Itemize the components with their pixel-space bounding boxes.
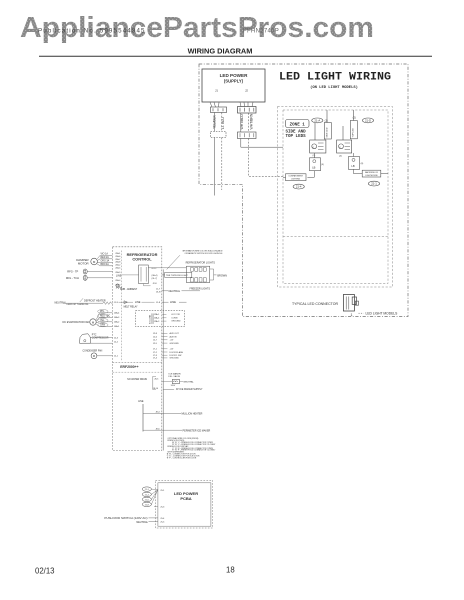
svg-text:M: M: [93, 260, 96, 264]
svg-text:IM CONN: IM CONN: [150, 314, 152, 324]
svg-text:J4A-4: J4A-4: [114, 312, 120, 315]
svg-text:BRN 4A: BRN 4A: [101, 263, 110, 266]
svg-text:ORG 3A: ORG 3A: [101, 260, 110, 263]
svg-text:CONN: CONN: [171, 317, 178, 319]
svg-text:21-1: 21-1: [145, 489, 150, 491]
svg-text:+5V: +5V: [170, 340, 174, 342]
svg-text:LINE: LINE: [116, 274, 122, 277]
svg-text:J2-6: J2-6: [153, 336, 158, 338]
svg-text:4#2 YOR: 4#2 YOR: [171, 314, 180, 316]
svg-text:WHT/BRN: WHT/BRN: [250, 113, 254, 129]
svg-text:+5V: +5V: [170, 349, 174, 351]
svg-text:J3-N: J3-N: [156, 291, 161, 293]
svg-text:(3H-4): (3H-4): [152, 275, 158, 277]
svg-text:J5-3: J5-3: [160, 506, 165, 508]
svg-text:J4A-3: J4A-3: [114, 316, 120, 319]
svg-text:GRN: GRN: [100, 325, 105, 327]
svg-text:PUSH ROD SWITCH (120V AC): PUSH ROD SWITCH (120V AC): [104, 516, 147, 520]
svg-text:ERF2000++: ERF2000++: [120, 365, 138, 369]
svg-text:FFHN2740P: FFHN2740P: [243, 28, 279, 34]
svg-text:YEL: YEL: [100, 320, 105, 322]
svg-text:J2-7: J2-7: [153, 340, 158, 342]
svg-text:GROUND: GROUND: [171, 321, 181, 323]
svg-text:VIO 1A: VIO 1A: [101, 253, 109, 256]
svg-text:J7-1: J7-1: [153, 349, 158, 351]
svg-text:MULLION HEATER: MULLION HEATER: [182, 413, 203, 416]
svg-text:J8-5: J8-5: [154, 378, 159, 380]
svg-text:TOP LED: TOP LED: [353, 128, 355, 138]
svg-text:BROWN: BROWN: [217, 274, 227, 277]
svg-text:GROUND: GROUND: [170, 358, 180, 360]
svg-text:NEUTRAL: NEUTRAL: [169, 290, 181, 293]
svg-text:RFG - TP: RFG - TP: [67, 269, 78, 273]
svg-text:Publication No. 5995544845: Publication No. 5995544845: [38, 27, 146, 34]
svg-text:J1: J1: [215, 89, 218, 93]
svg-text:J2-2: J2-2: [114, 341, 119, 343]
svg-text:RED +DC: RED +DC: [100, 316, 110, 318]
svg-text:(SUPPLY): (SUPPLY): [224, 79, 244, 84]
svg-text:M: M: [92, 320, 95, 324]
svg-text:(4): (4): [339, 156, 342, 158]
svg-text:AT ICE MAKER SUPPLY: AT ICE MAKER SUPPLY: [176, 388, 203, 391]
svg-text:BACKSIDE OF: BACKSIDE OF: [365, 171, 379, 174]
svg-text:J5-1: J5-1: [160, 490, 165, 492]
svg-text:LINE: LINE: [170, 300, 176, 304]
svg-text:'E' 'F' - CONTROLLER FOR DOOR: 'E' 'F' - CONTROLLER FOR DOOR: [167, 458, 197, 460]
svg-text:LINE: LINE: [135, 301, 141, 304]
svg-text:(2): (2): [353, 116, 356, 120]
svg-text:ICE MAKER: ICE MAKER: [169, 372, 181, 375]
svg-text:LIGHTHOUSE: LIGHTHOUSE: [365, 175, 378, 177]
svg-text:J2A-1: J2A-1: [154, 313, 160, 316]
svg-text:J2A-4: J2A-4: [154, 317, 160, 320]
svg-text:PPL: PPL: [100, 311, 105, 313]
svg-text:J1-3: J1-3: [114, 302, 119, 304]
svg-text:DEFROST HEATER: DEFROST HEATER: [84, 300, 106, 303]
svg-text:J7-3: J7-3: [153, 355, 158, 357]
svg-text:120V: 120V: [171, 385, 176, 387]
svg-text:DOOR 1 SW: DOOR 1 SW: [170, 355, 182, 357]
svg-text:J2: J2: [245, 89, 248, 93]
svg-text:LIGHTING: LIGHTING: [291, 178, 300, 180]
svg-text:LED POWER: LED POWER: [220, 73, 249, 78]
svg-text:TYPICAL LED CONNECTOR: TYPICAL LED CONNECTOR: [292, 302, 338, 306]
svg-text:J7-2: J7-2: [153, 352, 158, 354]
svg-text:21-6: 21-6: [145, 499, 150, 501]
svg-text:SIDE LED: SIDE LED: [327, 127, 329, 137]
svg-text:LB: LB: [351, 164, 354, 168]
svg-text:J1A-5: J1A-5: [115, 267, 121, 270]
svg-text:J5-5: J5-5: [160, 522, 165, 524]
svg-text:(5): (5): [321, 164, 324, 166]
svg-text:02/13: 02/13: [35, 567, 55, 576]
svg-text:RFG - TCH: RFG - TCH: [66, 276, 79, 280]
svg-text:DOOR FLASH: DOOR FLASH: [170, 351, 184, 354]
svg-text:CONDENSER FAN: CONDENSER FAN: [83, 349, 103, 352]
svg-text:(6): (6): [361, 163, 364, 165]
svg-text:J7-4: J7-4: [153, 358, 158, 360]
svg-text:RED 2A: RED 2A: [101, 256, 110, 259]
svg-text:MELT RELAY: MELT RELAY: [124, 306, 138, 309]
svg-text:GROUND: GROUND: [170, 343, 180, 345]
svg-text:J1A-1: J1A-1: [115, 252, 121, 255]
svg-text:LB: LB: [312, 165, 315, 169]
svg-text:SIDE AND: SIDE AND: [286, 131, 307, 135]
svg-text:J2-3: J2-3: [114, 338, 119, 340]
svg-text:J1A-6: J1A-6: [115, 255, 121, 258]
svg-text:TER TWIN SW LIGHT: TER TWIN SW LIGHT: [166, 275, 188, 277]
svg-text:DEFROST THERM YEL: DEFROST THERM YEL: [67, 304, 90, 306]
svg-text:LED LIGHT MODELS: LED LIGHT MODELS: [366, 312, 399, 316]
svg-text:J2-8: J2-8: [153, 283, 158, 285]
svg-text:PTC: PTC: [92, 335, 97, 337]
svg-text:21-A: 21-A: [314, 118, 320, 122]
svg-text:21-4: 21-4: [296, 185, 302, 189]
svg-text:FREEZER LIGHTS: FREEZER LIGHTS: [190, 287, 211, 290]
svg-text:J1-7: J1-7: [156, 289, 161, 291]
svg-text:NEUTRAL: NEUTRAL: [136, 521, 148, 524]
svg-text:TOP LEDS: TOP LEDS: [286, 135, 307, 139]
svg-text:(3L-7): (3L-7): [152, 278, 158, 280]
svg-text:NO WATER DRAIN: NO WATER DRAIN: [127, 378, 147, 381]
svg-text:J4A-1: J4A-1: [114, 325, 120, 328]
svg-text:J2-5: J2-5: [153, 343, 158, 345]
svg-text:21-8: 21-8: [145, 504, 150, 506]
svg-text:WIRING DIAGRAM: WIRING DIAGRAM: [188, 47, 253, 56]
svg-text:J5-4: J5-4: [160, 518, 165, 520]
svg-text:J2A-3: J2A-3: [154, 320, 160, 323]
svg-text:(1): (1): [325, 119, 328, 123]
svg-text:PERIMETER ICE MAKER: PERIMETER ICE MAKER: [183, 430, 211, 433]
svg-text:PCBA: PCBA: [180, 496, 191, 501]
svg-text:J2-8: J2-8: [153, 333, 158, 335]
svg-text:J1A-2: J1A-2: [115, 264, 121, 267]
svg-text:M: M: [93, 354, 95, 358]
svg-text:J2-1: J2-1: [114, 356, 119, 358]
svg-text:AUX IN: AUX IN: [170, 335, 177, 338]
svg-text:REFRIGERATOR LIGHTS: REFRIGERATOR LIGHTS: [186, 262, 216, 265]
svg-text:AUX OUT: AUX OUT: [170, 332, 180, 335]
svg-text:J8-10: J8-10: [153, 388, 159, 390]
svg-text:NEUTRAL: NEUTRAL: [184, 381, 195, 384]
svg-text:J4A-2: J4A-2: [114, 321, 120, 324]
svg-text:AMB - AMBIENT: AMB - AMBIENT: [120, 288, 138, 291]
svg-text:J2-12: J2-12: [151, 268, 157, 270]
svg-text:DC EVAPORATOR FAN: DC EVAPORATOR FAN: [63, 321, 90, 324]
svg-text:LED LIGHT WIRING: LED LIGHT WIRING: [279, 72, 391, 84]
svg-text:21-1: 21-1: [371, 182, 377, 186]
svg-text:J1A-4: J1A-4: [115, 279, 121, 282]
svg-text:OF MAGNETIC SWITCH IN DOOR LIG: OF MAGNETIC SWITCH IN DOOR LIGHTHOLE: [185, 252, 224, 255]
svg-text:CONTROL: CONTROL: [132, 256, 152, 261]
svg-text:18: 18: [226, 566, 235, 575]
svg-text:(3): (3): [313, 155, 316, 157]
svg-text:FILL VALVE: FILL VALVE: [169, 375, 181, 378]
svg-text:J1-8: J1-8: [156, 302, 161, 304]
svg-text:COMPARTMENT: COMPARTMENT: [288, 175, 303, 178]
svg-text:ZONE 1: ZONE 1: [290, 123, 306, 127]
svg-text:LINE: LINE: [138, 400, 144, 403]
svg-text:21-D: 21-D: [365, 118, 371, 122]
svg-text:1: 1: [351, 313, 353, 317]
svg-text:J1A-8: J1A-8: [115, 261, 121, 264]
svg-text:21-4: 21-4: [145, 494, 150, 496]
svg-text:(ON LED LIGHT MODELS): (ON LED LIGHT MODELS): [310, 85, 358, 90]
svg-text:J1A-7: J1A-7: [115, 258, 121, 261]
svg-text:MOTOR: MOTOR: [78, 262, 89, 266]
